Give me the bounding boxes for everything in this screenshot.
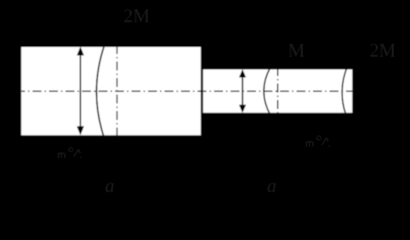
horizontal centerline: [21, 90, 352, 92]
diameter arrow large section (double-headed vertical): [77, 47, 84, 136]
svg-text:a: a: [267, 176, 277, 197]
svg-text:a: a: [105, 176, 115, 197]
section centerline 1 (vertical dash-dot in large section): [116, 45, 118, 137]
diameter label d2 (below small section, faint): [307, 136, 330, 147]
shaft small section (white body): [203, 69, 352, 112]
svg-text:M: M: [288, 40, 305, 61]
shaft large section (white body): [21, 47, 201, 135]
svg-text:2M: 2M: [124, 6, 151, 27]
section centerline 2 (vertical dash-dot in small section): [277, 67, 279, 115]
diameter label d1 (below large section, faint): [59, 148, 82, 159]
torque arc 1 (curved moment line on large section): [96, 44, 104, 138]
torque arc 3 (curved moment line at right end): [342, 68, 347, 115]
svg-text:2M: 2M: [370, 40, 397, 61]
torque arc 2 (curved moment line on small section): [264, 68, 271, 115]
diameter arrow small section (double-headed vertical): [239, 69, 246, 113]
